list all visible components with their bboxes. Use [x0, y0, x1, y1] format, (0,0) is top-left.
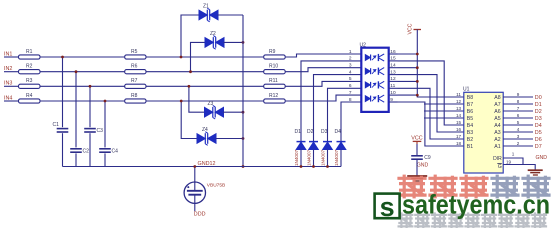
wire Z2 to common vertical	[224, 41, 244, 43]
opto channel 2 LED and transistor	[365, 68, 384, 75]
diode D2 1N4007	[309, 141, 318, 143]
svg-text:R7: R7	[131, 78, 138, 84]
wire R9 to opto pin 1	[285, 54, 361, 57]
svg-text:R3: R3	[26, 78, 33, 84]
watermark logo S box	[375, 194, 400, 219]
wire opto pin 12 to VCC rail	[398, 80, 418, 82]
svg-text:17: 17	[456, 134, 462, 139]
svg-text:B6: B6	[467, 109, 473, 115]
wire R8 to R12	[146, 100, 264, 102]
svg-text:A5: A5	[494, 116, 500, 122]
ground symbol right	[528, 169, 543, 171]
wire opto pin 13 to U1 pin 16	[398, 75, 464, 132]
svg-text:R10: R10	[269, 64, 278, 70]
capacitor C2	[70, 148, 82, 150]
svg-text:R8: R8	[131, 93, 138, 99]
wire C9 to ground	[416, 159, 418, 175]
svg-text:2: 2	[349, 56, 352, 62]
svg-text:1N4007: 1N4007	[321, 149, 326, 166]
wire G to ground	[503, 165, 535, 170]
svg-text:A1: A1	[494, 144, 500, 150]
wire IN3 to R3	[4, 85, 19, 87]
svg-text:D4: D4	[335, 129, 342, 135]
wire Z3 to common vertical	[223, 111, 243, 113]
svg-text:Z4: Z4	[202, 127, 208, 133]
wire row4 down to Z4	[181, 101, 197, 139]
wire R10 to opto pin 3	[285, 68, 361, 72]
optocoupler U2 box	[361, 48, 388, 112]
svg-text:4: 4	[349, 69, 352, 75]
svg-text:1N4007: 1N4007	[334, 149, 339, 166]
wire tap row1 to C1	[62, 57, 64, 127]
capacitor C3	[84, 128, 96, 130]
svg-text:Z3: Z3	[208, 101, 214, 107]
watermark gray characters	[399, 214, 413, 228]
svg-text:D7: D7	[535, 144, 542, 150]
svg-text:5: 5	[349, 76, 352, 82]
svg-text:8: 8	[349, 97, 352, 103]
svg-text:3: 3	[349, 63, 352, 69]
U1 right pin 4 wire	[503, 131, 533, 133]
svg-text:D1: D1	[535, 102, 542, 108]
svg-text:GND: GND	[536, 155, 548, 161]
wire R12 to opto pin 7	[285, 95, 361, 101]
svg-text:12: 12	[456, 99, 462, 104]
zener diode Z3	[205, 105, 224, 119]
svg-text:7: 7	[517, 106, 520, 111]
wire R5 to R9	[146, 56, 264, 58]
wire opto pin 14 to VCC rail	[398, 67, 418, 69]
svg-text:D2: D2	[307, 129, 314, 135]
svg-text:G: G	[498, 164, 502, 170]
wire IN2 to R2	[4, 71, 19, 73]
diode D1 1N4007	[297, 141, 306, 143]
svg-text:C9: C9	[424, 155, 431, 161]
wire opto pin 9 to U1 pin 18	[398, 102, 464, 146]
U1 right pin 9 wire	[503, 96, 533, 98]
wire IN4 to R4	[4, 100, 19, 102]
wire C4 to ground rail	[104, 153, 106, 166]
svg-text:13: 13	[456, 106, 462, 111]
svg-text:5: 5	[517, 120, 520, 125]
svg-text:9: 9	[517, 92, 520, 97]
svg-text:GND12: GND12	[198, 161, 216, 167]
wire opto pin 2 to D1	[301, 61, 361, 142]
svg-text:VCC: VCC	[408, 23, 414, 34]
svg-text:A7: A7	[494, 102, 500, 108]
svg-text:Z1: Z1	[203, 4, 209, 10]
svg-text:18: 18	[456, 141, 462, 146]
resistor R4	[19, 99, 41, 103]
resistor R6	[125, 70, 146, 74]
svg-text:D6: D6	[535, 137, 542, 143]
svg-text:7: 7	[349, 90, 352, 96]
wire C2 to ground rail	[75, 153, 77, 166]
svg-text:8: 8	[517, 99, 520, 104]
wire into U1 pin 14	[424, 117, 464, 119]
diode D3 1N4007	[323, 141, 332, 143]
opto channel 3 LED and transistor	[365, 81, 384, 88]
svg-text:6: 6	[517, 113, 520, 118]
wire tap row3 to C3	[89, 86, 91, 127]
svg-text:B3: B3	[467, 130, 473, 136]
wire row2 up to Z2	[191, 42, 206, 71]
svg-text:4: 4	[517, 127, 520, 132]
svg-text:D0: D0	[535, 95, 542, 101]
wire opto pin 16 to VCC rail	[398, 53, 418, 55]
opto right pin 16 stub	[389, 53, 398, 55]
wire R7 to R11	[146, 85, 264, 87]
svg-text:11: 11	[456, 92, 461, 97]
svg-text:U2: U2	[360, 43, 367, 49]
svg-text:C3: C3	[97, 128, 104, 134]
ground symbol lower	[407, 175, 427, 177]
wire row3 down to Z3	[189, 86, 205, 112]
svg-text:B7: B7	[467, 102, 473, 108]
svg-text:D2: D2	[535, 109, 542, 115]
svg-text:B4: B4	[467, 123, 473, 129]
capacitor C9	[411, 155, 423, 157]
svg-text:D3: D3	[535, 116, 542, 122]
resistor R9	[264, 55, 286, 59]
U1 right pin 2 wire	[503, 145, 533, 147]
zener diode Z4	[197, 132, 216, 146]
svg-text:DDD: DDD	[194, 211, 206, 217]
wire R1 to R5	[40, 56, 125, 58]
IC U1 box	[464, 92, 503, 173]
svg-text:U1: U1	[463, 87, 470, 93]
opto channel 4 LED and transistor	[365, 95, 384, 102]
svg-text:R4: R4	[26, 93, 33, 99]
svg-text:R5: R5	[131, 49, 138, 55]
svg-text:B8: B8	[467, 95, 473, 101]
svg-text:D5: D5	[535, 130, 542, 136]
svg-text:3: 3	[517, 134, 520, 139]
svg-text:1N4007: 1N4007	[294, 149, 299, 166]
U1 right pin 5 wire	[503, 124, 533, 126]
svg-text:6: 6	[349, 83, 352, 89]
wire tap row2 to C2	[75, 72, 77, 148]
wire IN1 to R1	[4, 56, 19, 58]
svg-text:A8: A8	[494, 95, 500, 101]
svg-text:Z2: Z2	[210, 31, 216, 37]
svg-text:B1: B1	[467, 144, 473, 150]
resistor R8	[125, 99, 146, 103]
svg-text:D1: D1	[295, 129, 302, 135]
wire D4 to ground rail	[340, 150, 342, 167]
wire VCC to C9	[416, 144, 418, 155]
svg-text:C4: C4	[112, 148, 119, 154]
wire VCC vertical rail	[417, 30, 464, 98]
wire tap row4 to C4	[104, 101, 106, 147]
ground rail GND12	[63, 166, 342, 168]
resistor R3	[19, 84, 41, 88]
svg-text:R9: R9	[269, 49, 276, 55]
diode D4 1N4007	[337, 141, 346, 143]
wire C1 to ground rail	[62, 133, 64, 166]
opto right pin 11 stub	[389, 87, 398, 89]
wire D3 to ground rail	[327, 150, 329, 167]
svg-text:A6: A6	[494, 109, 500, 115]
wire zener common vertical to ground rail	[242, 15, 244, 167]
wire opto pin 8 to D4	[341, 102, 361, 142]
opto right pin 9 stub	[389, 101, 398, 103]
wire ground rail to battery B1	[194, 167, 196, 191]
svg-text:1N4007: 1N4007	[307, 149, 312, 166]
svg-text:R2: R2	[26, 64, 33, 70]
U1 right pin 3 wire	[503, 138, 533, 140]
svg-text:A3: A3	[494, 130, 500, 136]
svg-text:14: 14	[456, 113, 462, 118]
wire Z4 to common vertical	[216, 138, 244, 140]
svg-text:2: 2	[517, 141, 520, 146]
svg-text:1: 1	[349, 49, 352, 55]
wire into U1 pin 12	[424, 103, 464, 105]
svg-text:1: 1	[512, 152, 515, 157]
svg-text:A4: A4	[494, 123, 500, 129]
wire R3 to R7	[40, 85, 125, 87]
opto channel 1 LED and transistor	[365, 54, 384, 61]
wire R2 to R6	[40, 71, 125, 73]
svg-text:D4: D4	[535, 123, 542, 129]
U1 right pin 7 wire	[503, 110, 533, 112]
svg-text:GND: GND	[417, 163, 429, 169]
wire D2 to ground rail	[313, 150, 315, 167]
resistor R2	[19, 70, 41, 74]
wire opto pin 10 to VCC rail	[398, 94, 418, 96]
resistor R11	[264, 84, 286, 88]
battery B1 circle symbol VBU75B	[184, 182, 205, 203]
watermark red characters	[399, 176, 425, 197]
wire opto pin 6 to D3	[328, 88, 362, 141]
wire battery to DDD	[194, 195, 196, 212]
svg-text:C1: C1	[53, 122, 60, 128]
svg-text:D3: D3	[321, 129, 328, 135]
capacitor C1	[57, 128, 69, 130]
svg-text:19: 19	[506, 160, 512, 165]
resistor R12	[264, 99, 286, 103]
wire D1 to ground rail	[300, 150, 302, 167]
svg-text:R11: R11	[269, 78, 278, 84]
wire Z1 to common vertical	[218, 14, 244, 16]
opto right pin 13 stub	[389, 74, 398, 76]
opto right pin 12 stub	[389, 80, 398, 82]
wire opto pin 4 to D2	[314, 75, 362, 142]
svg-text:A2: A2	[494, 137, 500, 143]
opto right pin 14 stub	[389, 67, 398, 69]
svg-text:B2: B2	[467, 137, 473, 143]
wire R11 to opto pin 5	[285, 81, 361, 86]
wire DIR to G	[503, 158, 523, 165]
wire R6 to R10	[146, 71, 264, 73]
svg-text:safetyemc.cn: safetyemc.cn	[402, 190, 550, 220]
zener diode Z2	[205, 36, 224, 50]
wire opto pin 15 to U1 pin 15	[398, 61, 464, 125]
resistor R5	[125, 55, 146, 59]
svg-text:R12: R12	[269, 93, 278, 99]
svg-text:B5: B5	[467, 116, 473, 122]
capacitor C4	[99, 148, 111, 150]
svg-text:s: s	[380, 192, 395, 222]
svg-text:16: 16	[456, 127, 462, 132]
resistor R7	[125, 84, 146, 88]
U1 right pin 8 wire	[503, 103, 533, 105]
svg-text:VBU75B: VBU75B	[207, 183, 225, 189]
resistor R1	[19, 55, 41, 59]
svg-text:VCC: VCC	[411, 135, 422, 141]
svg-text:C2: C2	[83, 148, 90, 154]
svg-text:R6: R6	[131, 64, 138, 70]
power port VCC top	[414, 29, 422, 31]
svg-text:DIR: DIR	[493, 156, 502, 162]
svg-text:R1: R1	[26, 49, 33, 55]
opto right pin 15 stub	[389, 60, 398, 62]
opto right pin 10 stub	[389, 94, 398, 96]
U1 right pin 6 wire	[503, 117, 533, 119]
wire opto pin 11 to U1 pin 17	[398, 88, 464, 139]
svg-text:15: 15	[456, 120, 462, 125]
wire R4 to R8	[40, 100, 125, 102]
wire C3 to ground rail	[89, 133, 91, 166]
zener diode Z1	[199, 8, 218, 22]
wire into U1 pin 13	[424, 110, 464, 112]
resistor R10	[264, 70, 286, 74]
wire row1 up to Z1	[181, 15, 200, 57]
